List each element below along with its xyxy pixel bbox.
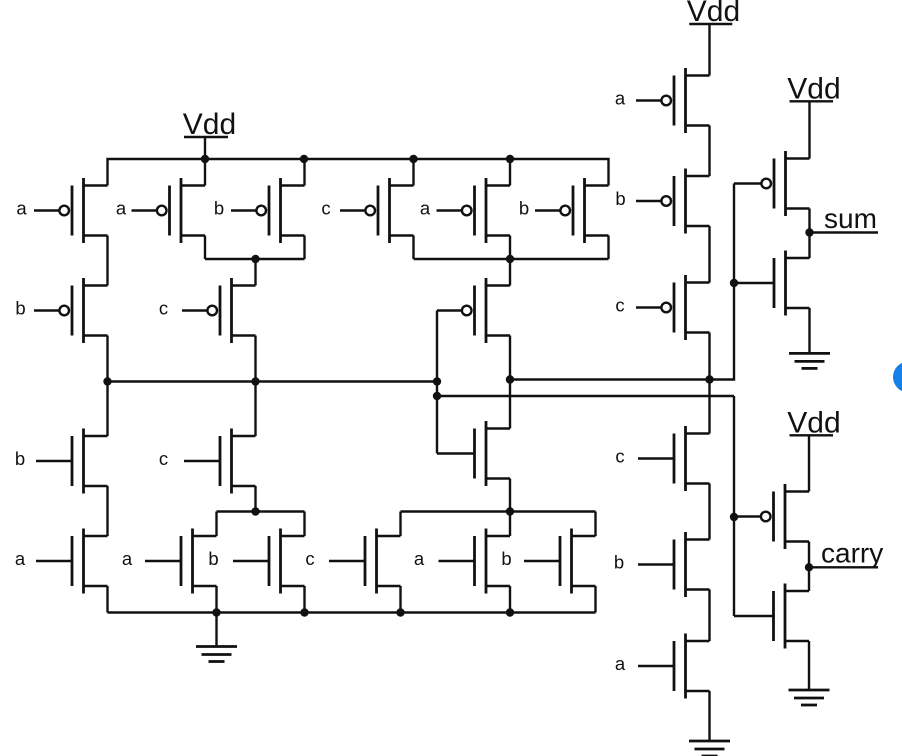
- wire: [509, 479, 511, 512]
- transistor PMOS a (left column top): [71, 186, 74, 236]
- wire: [303, 586, 305, 613]
- node: [506, 375, 514, 383]
- wire: [215, 586, 217, 613]
- wire: [412, 159, 414, 186]
- wire carry-bar drop to carry inverter: [733, 396, 735, 616]
- node: [730, 513, 738, 521]
- wire: [204, 236, 206, 260]
- svg-text:c: c: [159, 298, 168, 319]
- wire: [399, 586, 401, 613]
- wire carry-bar line left: [108, 380, 438, 382]
- wire: [708, 590, 710, 642]
- svg-text:b: b: [615, 188, 625, 209]
- transistor PMOS b (carry chain): [673, 176, 676, 226]
- wire: [303, 236, 305, 260]
- wire: [399, 512, 401, 537]
- node: [705, 375, 713, 383]
- wire Vdd stub left: [204, 137, 206, 159]
- wire: [106, 586, 108, 613]
- node: [201, 155, 209, 163]
- wire: [303, 159, 305, 186]
- svg-text:a: a: [420, 198, 431, 219]
- wire: [509, 336, 511, 429]
- node: [300, 155, 308, 163]
- wire carry-bar vertical: [436, 311, 438, 454]
- wire: [594, 512, 596, 537]
- ground symbol carry inverter: [789, 689, 830, 692]
- wire: [708, 484, 710, 540]
- wire: [808, 308, 810, 353]
- wire: [509, 586, 511, 613]
- transistor PMOS carry-bar gate (sum pull-up): [473, 286, 476, 336]
- node: [506, 507, 514, 515]
- node: [251, 507, 259, 515]
- svg-text:b: b: [214, 198, 224, 219]
- wire: [254, 259, 256, 286]
- wire: [808, 542, 810, 568]
- node: [396, 608, 404, 616]
- node: [251, 255, 259, 263]
- wire node line: [414, 258, 609, 260]
- node: [433, 377, 441, 385]
- wire: [708, 380, 710, 434]
- wire ground stub: [708, 691, 710, 741]
- wire sum-bar line: [510, 184, 734, 380]
- transistor NMOS c (sum chain): [673, 434, 676, 484]
- svg-text:b: b: [501, 548, 511, 569]
- svg-text:a: a: [16, 198, 27, 219]
- wire sum output: [810, 231, 879, 233]
- node: [433, 392, 441, 400]
- wire Vdd stub chain: [708, 24, 710, 76]
- wire carry-bar line right: [437, 395, 734, 397]
- transistor NMOS b (parallel pair): [268, 536, 271, 586]
- node: [730, 279, 738, 287]
- wire: [254, 382, 256, 437]
- svg-text:a: a: [615, 88, 626, 109]
- wire: [509, 159, 511, 186]
- wire: [808, 233, 810, 259]
- wire: [607, 236, 609, 260]
- transistor PMOS sum inverter: [773, 159, 776, 209]
- transistor PMOS c (sum pull-up trio): [377, 186, 380, 236]
- wire: [303, 512, 305, 537]
- svg-text:a: a: [122, 548, 133, 569]
- wire carry output: [809, 566, 878, 568]
- svg-text:a: a: [414, 548, 425, 569]
- node: [103, 377, 111, 385]
- wire: [808, 567, 810, 591]
- transistor PMOS carry inverter: [772, 492, 775, 542]
- transistor NMOS a (parallel pair): [180, 536, 183, 586]
- wire: [106, 382, 108, 437]
- node: [506, 608, 514, 616]
- wire node line: [205, 258, 305, 260]
- node: [251, 377, 259, 385]
- svg-text:b: b: [208, 548, 218, 569]
- ground symbol left: [196, 645, 237, 648]
- transistor NMOS b (sum chain): [673, 540, 676, 590]
- ground symbol bottom right: [689, 740, 730, 743]
- wire: [708, 333, 710, 380]
- node: [212, 608, 220, 616]
- node: [409, 155, 417, 163]
- wire: [254, 336, 256, 382]
- wire: [204, 159, 206, 186]
- wire node line: [217, 510, 305, 512]
- node: [805, 563, 813, 571]
- wire: [808, 641, 810, 690]
- node: [506, 155, 514, 163]
- transistor PMOS b (parallel pair): [268, 186, 271, 236]
- transistor PMOS c (carry chain): [673, 283, 676, 333]
- wire Vdd stub sum inverter: [808, 101, 810, 158]
- transistor NMOS b (sum pull-down trio): [559, 536, 562, 586]
- transistor PMOS a (parallel pair): [168, 186, 171, 236]
- node: [506, 255, 514, 263]
- wire Vdd rail: [108, 159, 609, 186]
- wire ground rail: [108, 611, 596, 613]
- svg-text:b: b: [15, 448, 25, 469]
- svg-text:c: c: [615, 295, 624, 316]
- svg-text:c: c: [305, 548, 314, 569]
- wire: [594, 586, 596, 613]
- wire: [509, 259, 511, 286]
- wire: [708, 126, 710, 177]
- transistor NMOS carry-bar gate (sum pull-down): [473, 429, 476, 479]
- svg-text:c: c: [615, 446, 624, 467]
- ground symbol sum inverter: [789, 352, 830, 355]
- wire: [412, 236, 414, 260]
- transistor NMOS b (left column): [71, 436, 74, 486]
- transistor PMOS a (sum pull-up trio): [473, 186, 476, 236]
- transistor NMOS c (sum pull-down trio): [364, 536, 367, 586]
- svg-text:sum: sum: [824, 203, 877, 234]
- svg-text:c: c: [321, 198, 330, 219]
- wire: [106, 336, 108, 382]
- blue dot (partially visible): [893, 362, 902, 393]
- transistor PMOS b (sum pull-up trio): [572, 186, 575, 236]
- svg-text:a: a: [615, 653, 626, 674]
- node: [300, 608, 308, 616]
- svg-text:a: a: [116, 198, 127, 219]
- wire: [106, 486, 108, 536]
- svg-text:a: a: [15, 548, 26, 569]
- wire: [808, 209, 810, 233]
- node: [805, 228, 813, 236]
- wire: [708, 226, 710, 283]
- transistor PMOS a (carry chain): [673, 76, 676, 126]
- transistor PMOS c (series below pair): [219, 286, 222, 336]
- transistor NMOS sum inverter: [773, 258, 776, 308]
- transistor NMOS a (sum pull-down trio): [473, 536, 476, 586]
- svg-text:carry: carry: [821, 538, 883, 569]
- wire: [106, 236, 108, 286]
- transistor NMOS a (left column): [71, 536, 74, 586]
- transistor PMOS b (left column): [71, 286, 74, 336]
- wire: [215, 512, 217, 537]
- svg-text:b: b: [614, 552, 624, 573]
- svg-text:c: c: [159, 448, 168, 469]
- svg-text:b: b: [15, 298, 25, 319]
- wire: [509, 236, 511, 260]
- wire: [509, 512, 511, 537]
- wire ground stub: [215, 613, 217, 647]
- wire node line: [401, 510, 596, 512]
- transistor NMOS carry inverter: [772, 591, 775, 641]
- wire: [254, 486, 256, 512]
- transistor NMOS c (series): [219, 436, 222, 486]
- svg-text:b: b: [519, 198, 529, 219]
- transistor NMOS a (sum chain): [673, 641, 676, 691]
- wire Vdd stub carry inverter: [808, 435, 810, 491]
